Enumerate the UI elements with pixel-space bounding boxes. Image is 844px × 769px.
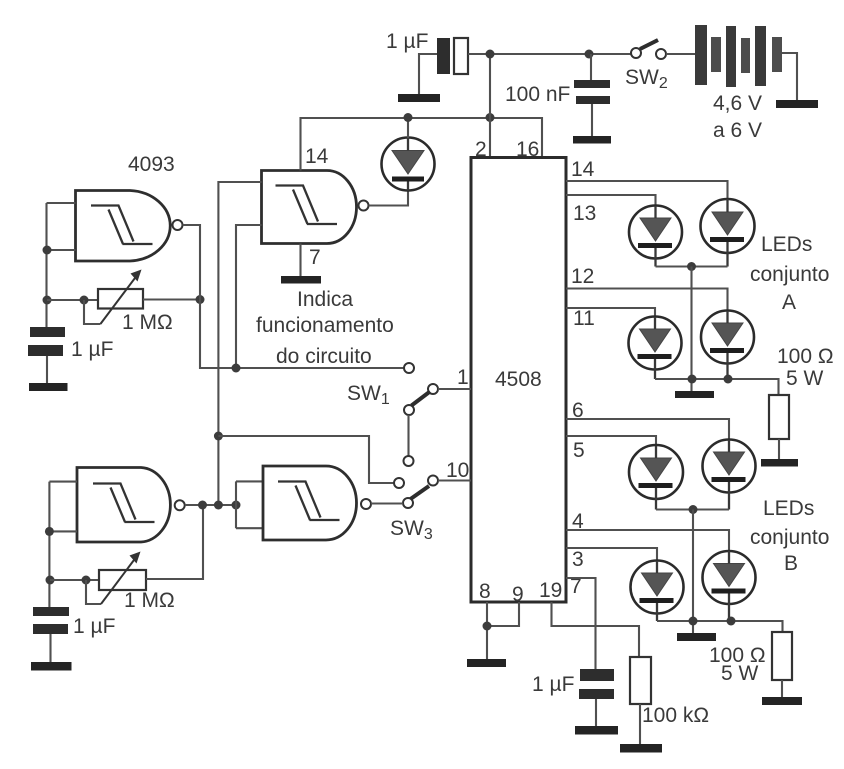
wire IC pin4 to LED B2R <box>566 530 729 551</box>
resistor R1 100 ohm 5W <box>769 395 789 459</box>
resistor R3 100k <box>630 657 651 744</box>
LED A2R <box>701 311 754 380</box>
node U1A lower input junction <box>43 246 52 255</box>
svg-text:1 µF: 1 µF <box>71 338 113 361</box>
wire U1B pin14 to V+ rail <box>301 118 543 171</box>
wire junction to pot P2 <box>50 579 99 581</box>
wire U1B pin7 to ground <box>299 244 301 277</box>
svg-text:conjunto: conjunto <box>750 526 829 549</box>
svg-text:13: 13 <box>573 202 596 225</box>
node feedback junction <box>196 295 205 304</box>
wire U1B inputs verticals <box>218 182 261 505</box>
node SW1 feed junction <box>232 364 241 373</box>
wire U1C output bus <box>185 504 236 506</box>
svg-text:14: 14 <box>305 145 329 168</box>
ground battery negative <box>776 100 818 108</box>
node pot P1 left <box>80 296 89 305</box>
nand gate U1A (oscillator 1) <box>76 191 183 262</box>
wire IC pin5 to LED B1L <box>566 436 656 446</box>
capacitor C4 1uF <box>33 607 69 662</box>
node U1D input junction <box>232 501 241 510</box>
wire IC pin12 to LED A2R <box>566 289 728 312</box>
wire LED1 anode to rail <box>407 118 409 139</box>
wire IC pin7 to capacitor C5 <box>566 578 596 669</box>
node A2 junction left <box>688 375 697 384</box>
ground below R3 <box>620 744 662 753</box>
svg-text:1 MΩ: 1 MΩ <box>122 311 173 334</box>
svg-text:B: B <box>784 552 798 575</box>
ground below C2 <box>398 94 440 102</box>
wire IC pin3 to LED B2L <box>566 548 657 561</box>
wire U1D input bracket <box>236 481 263 528</box>
capacitor C2 1uF (supply) <box>419 38 468 94</box>
ground LEDs B <box>677 633 716 641</box>
ground LEDs A <box>675 391 714 398</box>
wire U1C input left vertical <box>49 482 77 607</box>
wire P1 right to feedback node <box>143 298 200 300</box>
capacitor C5 1uF <box>579 669 614 726</box>
node B2 junction left <box>689 617 698 626</box>
wire U1A input left vertical <box>47 203 76 327</box>
wire SW3 to IC pin10 <box>438 479 471 481</box>
svg-text:A: A <box>782 291 796 314</box>
svg-text:4,6 V: 4,6 V <box>713 92 762 115</box>
node SW3 feed junction <box>214 432 223 441</box>
LED A1L <box>629 206 682 267</box>
svg-text:3: 3 <box>572 548 584 571</box>
IC U2 4508 <box>471 158 566 603</box>
ground below pin 8 <box>467 659 506 667</box>
svg-text:8: 8 <box>479 580 491 603</box>
svg-text:19: 19 <box>539 579 562 602</box>
wire P1 wiper L-link <box>84 300 101 324</box>
capacitor C1 1uF <box>28 327 65 383</box>
svg-text:funcionamento: funcionamento <box>256 314 394 337</box>
svg-text:1: 1 <box>457 366 469 389</box>
node feedback junction 2 <box>198 501 207 510</box>
svg-text:14: 14 <box>571 158 595 181</box>
wire A junction vertical <box>690 267 692 392</box>
wire IC pin8 to ground <box>486 602 488 659</box>
ground below C5 <box>575 726 618 735</box>
wire U1B output to LED1 cathode <box>369 191 409 206</box>
node B cathode junction <box>689 505 698 514</box>
capacitor C3 100nF <box>574 54 610 136</box>
node cap/pot junction 2 <box>46 576 55 585</box>
wire row B1 cathode join <box>656 508 729 510</box>
svg-text:LEDs: LEDs <box>761 233 812 256</box>
svg-text:LEDs: LEDs <box>763 497 814 520</box>
wire IC pin2 vertical <box>489 54 491 158</box>
svg-text:9: 9 <box>512 583 524 606</box>
svg-text:do circuito: do circuito <box>276 345 372 368</box>
wire junction to pot P1 <box>47 299 98 301</box>
switch SW3 <box>394 476 438 509</box>
svg-text:7: 7 <box>309 246 321 269</box>
node A cathode junction <box>687 262 696 271</box>
resistor R2 100 ohm 5W <box>772 632 792 697</box>
svg-text:SW2: SW2 <box>625 66 668 92</box>
svg-text:11: 11 <box>573 307 595 330</box>
node A2 junction right <box>724 375 733 384</box>
svg-text:Indica: Indica <box>297 288 353 311</box>
ground below C3 <box>573 136 611 144</box>
wire SW1 to IC pin1 <box>438 388 471 390</box>
wire IC pin11 to LED A2L <box>566 308 655 317</box>
wire P2 wiper L-link <box>86 580 101 604</box>
svg-text:5 W: 5 W <box>786 367 824 390</box>
ground below R2 <box>762 697 802 705</box>
wire IC pin6 to LED B1R <box>566 419 729 440</box>
wire row B2 cathode join to resistor <box>657 621 783 632</box>
nand gate U1C (oscillator 2) <box>77 468 185 543</box>
node cap/pot junction <box>43 296 52 305</box>
node pin8/9 junction <box>483 622 492 631</box>
node U1C lower input junction <box>45 527 54 536</box>
node B2 junction right <box>727 617 736 626</box>
wire U1A output down to SW1 <box>183 225 405 368</box>
wire IC pin13 to LED A1L <box>566 195 656 206</box>
svg-text:5: 5 <box>573 439 585 462</box>
ground below C4 <box>31 662 72 671</box>
node LED1 anode on rail <box>404 113 413 122</box>
LED B2R <box>703 551 756 621</box>
node pot P2 left <box>82 576 91 585</box>
svg-text:conjunto: conjunto <box>750 263 829 286</box>
svg-text:2: 2 <box>475 138 487 161</box>
svg-text:1 µF: 1 µF <box>532 673 574 696</box>
LED B1R <box>703 440 756 510</box>
LED LED1 indicator <box>382 138 435 191</box>
svg-text:4093: 4093 <box>128 153 175 176</box>
switch SW2 <box>631 40 695 59</box>
svg-text:100 Ω: 100 Ω <box>777 345 834 368</box>
wire IC pin19 to resistor R3 <box>552 602 640 657</box>
svg-text:1 µF: 1 µF <box>73 615 115 638</box>
potentiometer P2 1 Mohm <box>99 552 146 605</box>
svg-text:100 kΩ: 100 kΩ <box>642 704 709 727</box>
nand gate U1D <box>263 466 371 540</box>
svg-text:5 W: 5 W <box>721 662 759 685</box>
svg-text:1 µF: 1 µF <box>386 30 428 53</box>
wire P2 right to feedback node <box>146 505 203 579</box>
LED A1R <box>701 199 755 267</box>
LED B1L <box>629 445 683 510</box>
svg-text:100 nF: 100 nF <box>505 83 570 106</box>
ground below U1B pin 7 <box>281 276 321 284</box>
wire IC pin9 to pin8 <box>487 602 519 626</box>
LED B2L <box>631 561 684 622</box>
wire oscillator2 to SW3 <box>218 436 394 483</box>
node pin2 top rail <box>486 50 495 59</box>
ground below R1 <box>761 459 798 467</box>
svg-text:10: 10 <box>446 459 469 482</box>
ground below C1 <box>29 383 68 391</box>
wire IC pin14 to LED A1R <box>566 181 728 199</box>
switch SW1 <box>404 363 439 466</box>
node pin2 rail crossing <box>486 113 495 122</box>
svg-text:1 MΩ: 1 MΩ <box>124 589 175 612</box>
battery B1 <box>695 25 797 100</box>
svg-text:4508: 4508 <box>495 368 542 391</box>
svg-text:12: 12 <box>571 265 594 288</box>
node vertical bus junction <box>214 501 223 510</box>
node 100nF tap <box>585 50 594 59</box>
wire U1D output to SW3 <box>371 502 403 504</box>
svg-text:SW1: SW1 <box>347 382 390 408</box>
svg-text:SW3: SW3 <box>390 517 433 543</box>
nand gate U1B (indicator) <box>262 171 369 244</box>
potentiometer P1 1 Mohm <box>98 270 143 324</box>
svg-text:a 6 V: a 6 V <box>713 119 762 142</box>
LED A2L <box>629 317 682 380</box>
wire row A2 cathode join to resistor <box>655 379 779 395</box>
wire V+ top rail <box>468 53 631 55</box>
wire row A1 cathode join <box>656 265 728 267</box>
wire B junction vertical <box>692 510 694 634</box>
svg-text:16: 16 <box>516 138 539 161</box>
